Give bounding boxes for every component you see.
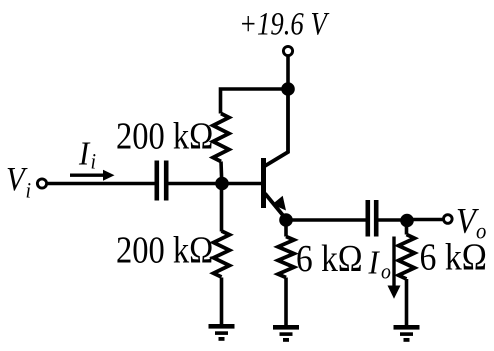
wire R1 bottom to base node bbox=[219, 162, 223, 184]
wire base node down to R2 bbox=[220, 184, 224, 232]
current arrow Ii bbox=[70, 170, 115, 181]
terminal Vi input (open circle) bbox=[37, 179, 46, 188]
svg-text:200 kΩ: 200 kΩ bbox=[116, 114, 213, 157]
wire C1 to base node bbox=[169, 182, 223, 186]
wire output junction down to R4 bbox=[405, 221, 409, 235]
resistor R2 200 kOhm (lower bias) bbox=[214, 231, 230, 277]
wire emitter node to C2 bbox=[286, 218, 366, 222]
wire emitter node down to R3 bbox=[284, 220, 288, 237]
ground G2 (emitter) bbox=[273, 325, 299, 342]
transistor Q1 base bar bbox=[261, 158, 266, 208]
wire base node to transistor base bbox=[222, 182, 262, 186]
transistor Q1 collector lead bbox=[264, 89, 288, 167]
node top junction (dot) bbox=[281, 82, 295, 96]
current arrow Io bbox=[388, 237, 401, 299]
svg-text:200 kΩ: 200 kΩ bbox=[116, 228, 213, 271]
label Vi bbox=[6, 160, 31, 203]
label Vo bbox=[456, 201, 486, 244]
ground G3 (load) bbox=[394, 325, 420, 342]
label Ii bbox=[78, 134, 96, 174]
label Io bbox=[368, 243, 391, 284]
wire output junction to Vo terminal bbox=[407, 218, 444, 222]
svg-text:+19.6 V: +19.6 V bbox=[239, 6, 330, 42]
terminal Vo output (open circle) bbox=[444, 215, 453, 224]
wire R2 to ground bbox=[220, 278, 224, 327]
node base junction (dot) bbox=[215, 177, 229, 191]
resistor R1 200 kOhm (upper bias) bbox=[213, 114, 229, 162]
label +19.6 V supply voltage bbox=[239, 6, 330, 42]
capacitor C1 (input coupling) bbox=[155, 161, 169, 201]
terminal VCC (open circle) bbox=[283, 46, 292, 55]
svg-text:6 kΩ: 6 kΩ bbox=[296, 237, 363, 279]
transistor Q1 emitter arrowhead bbox=[272, 196, 286, 211]
resistor R3 6 kOhm (emitter) bbox=[278, 237, 294, 278]
label 200 kOhm upper bbox=[116, 114, 213, 157]
node output junction (dot) bbox=[400, 214, 414, 228]
capacitor C2 (output coupling) bbox=[366, 200, 379, 237]
node emitter junction (dot) bbox=[279, 213, 293, 227]
wire Vi terminal to C1 bbox=[48, 182, 155, 186]
resistor R4 6 kOhm (load) bbox=[399, 235, 415, 280]
wire VCC terminal to top junction bbox=[286, 57, 290, 90]
transistor Q1 emitter lead bbox=[265, 194, 286, 220]
wire R3 to ground bbox=[284, 278, 288, 328]
svg-text:o: o bbox=[381, 259, 391, 284]
svg-text:6 kΩ: 6 kΩ bbox=[420, 236, 487, 278]
wire C2 to output junction bbox=[379, 218, 408, 222]
label 6 kOhm load bbox=[420, 236, 487, 278]
svg-text:i: i bbox=[91, 149, 97, 174]
svg-text:V: V bbox=[6, 160, 28, 198]
wire top rail left and down to R1 bbox=[221, 89, 289, 114]
svg-text:i: i bbox=[26, 178, 32, 203]
ground G1 (bias divider) bbox=[209, 324, 235, 341]
wire R4 to ground bbox=[405, 279, 409, 327]
label 200 kOhm lower bbox=[116, 228, 213, 271]
label 6 kOhm emitter bbox=[296, 237, 363, 279]
